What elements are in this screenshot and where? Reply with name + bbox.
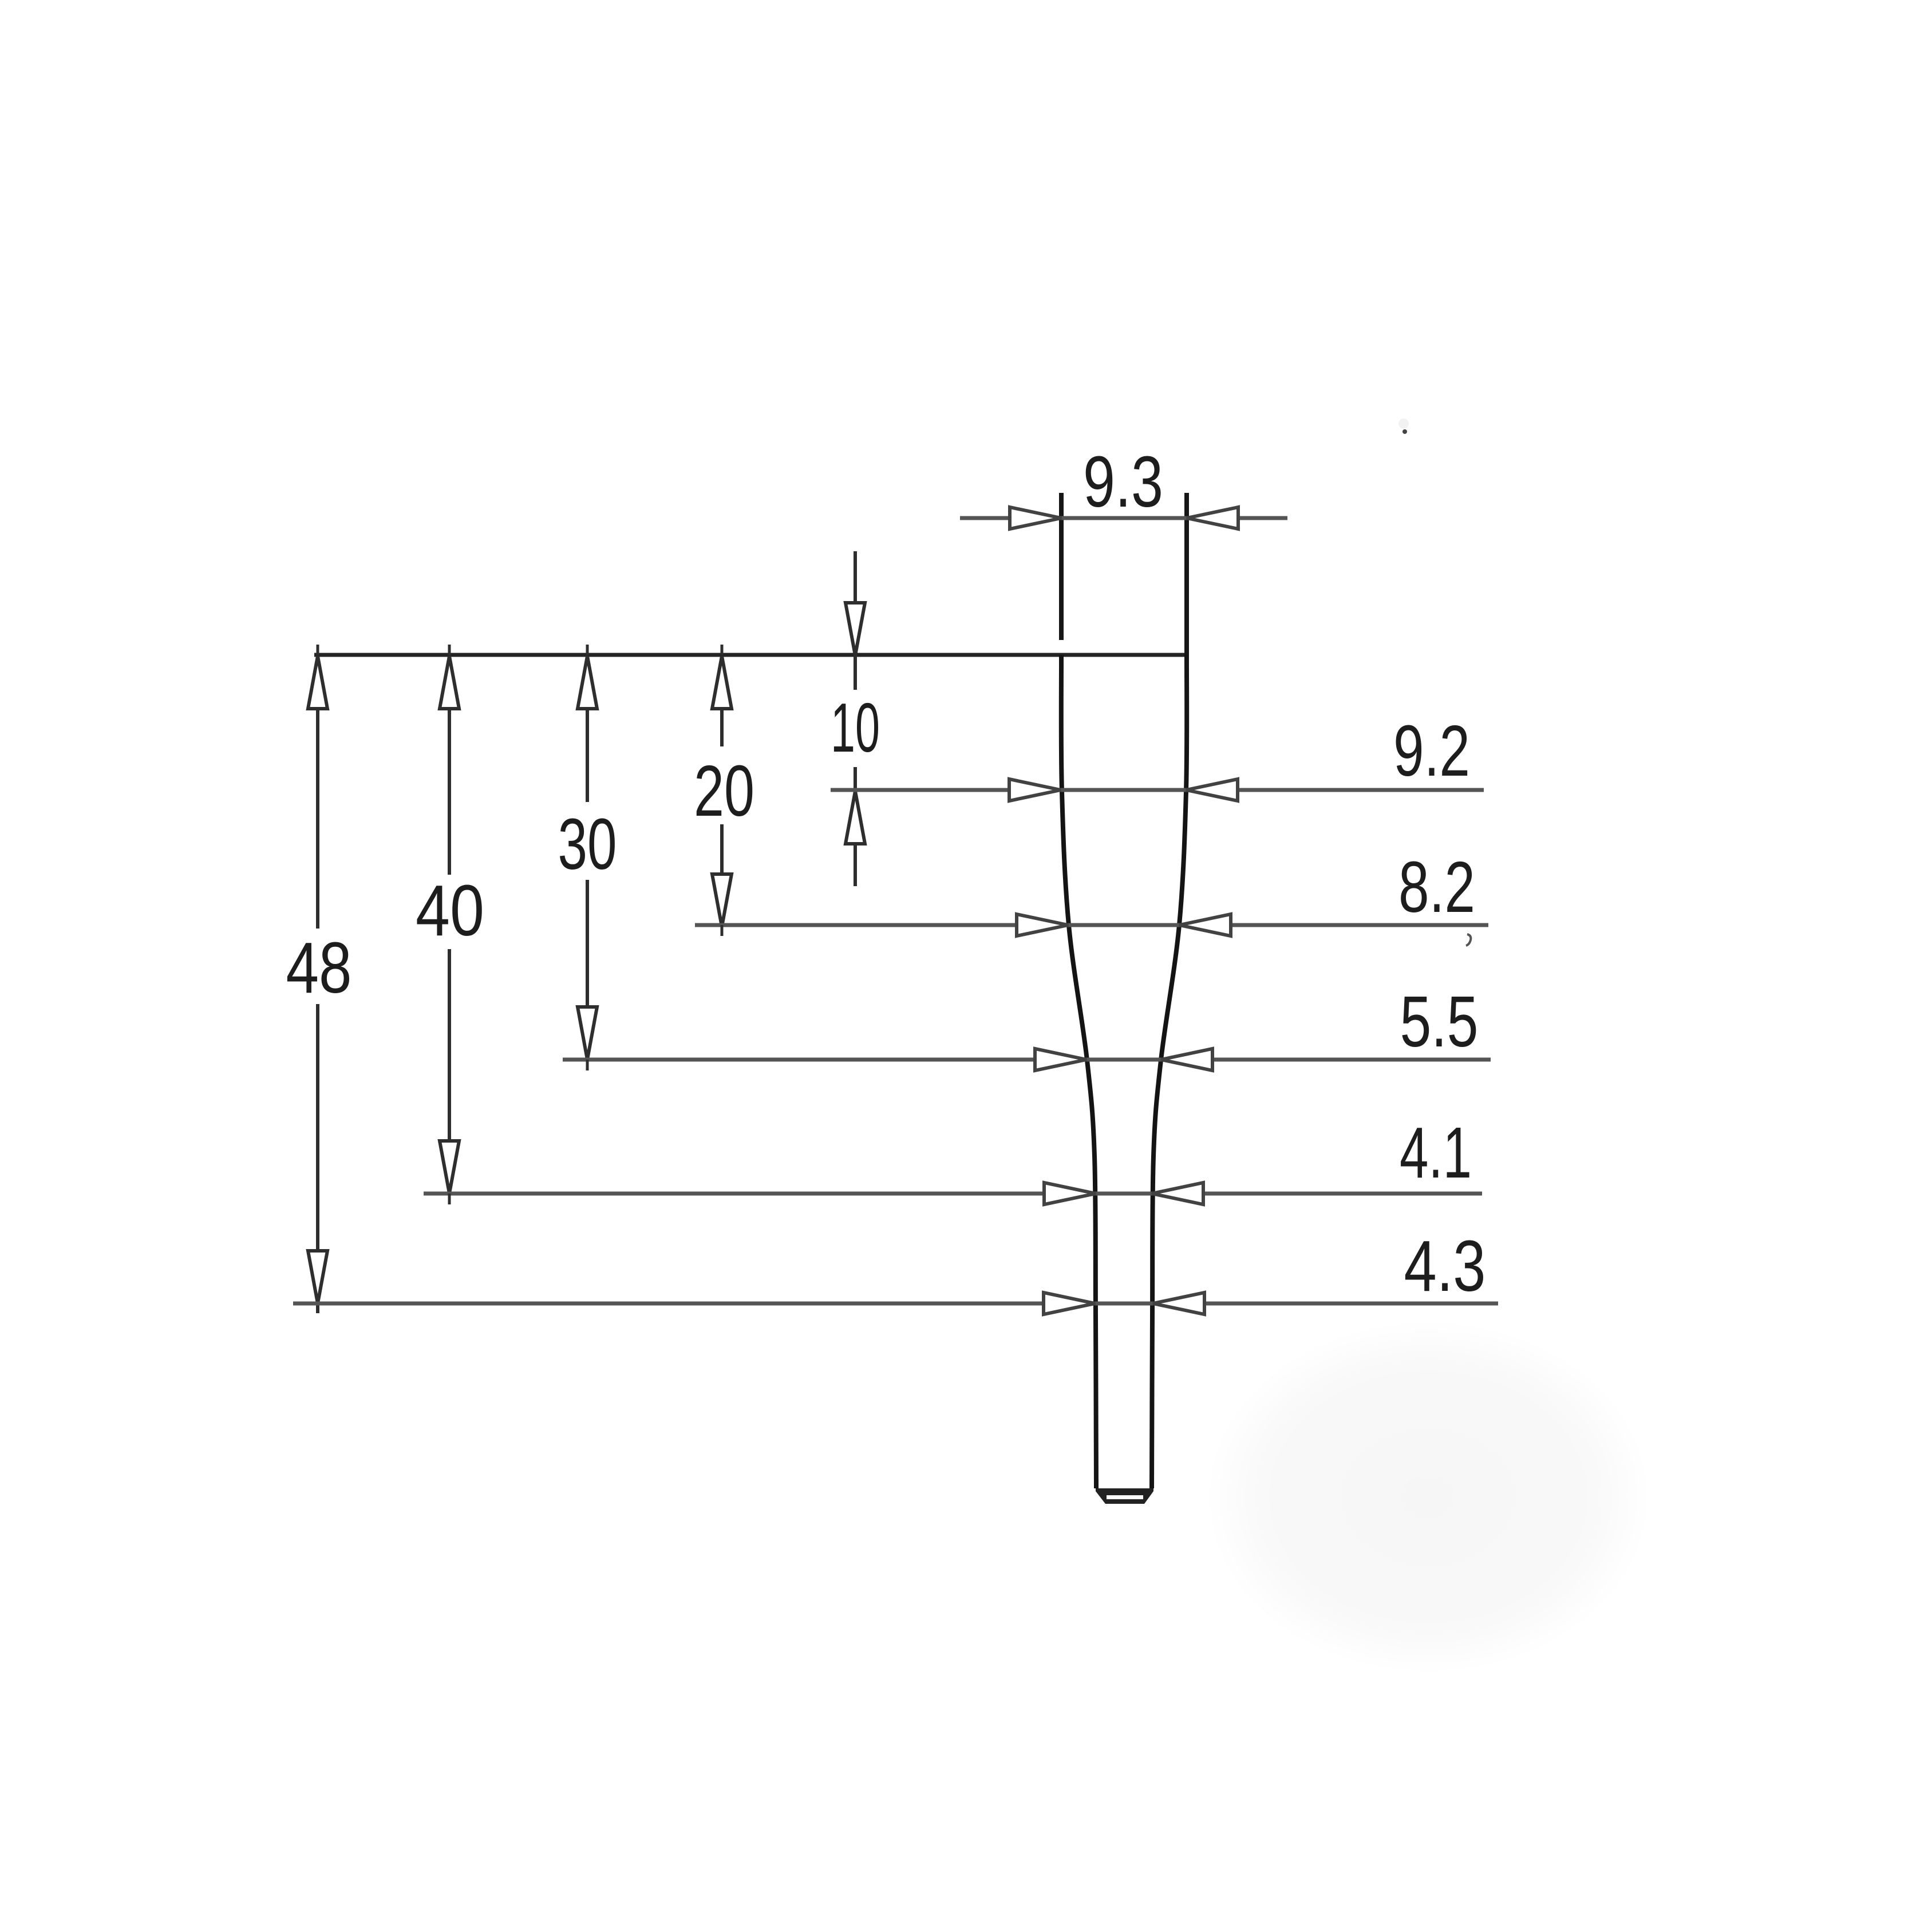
label 9.2 <box>1393 710 1470 791</box>
reed bottom cap <box>1096 1488 1153 1504</box>
scan speck top right <box>1398 418 1409 434</box>
label 5.5 <box>1400 981 1479 1062</box>
dimension 9.3 line <box>960 507 1287 529</box>
label 40 <box>416 870 484 951</box>
dimension 30 vertical <box>578 656 597 1060</box>
label 4.3 <box>1404 1226 1486 1306</box>
svg-text:4.3: 4.3 <box>1404 1226 1486 1306</box>
svg-text:4.1: 4.1 <box>1400 1112 1472 1193</box>
9.3 extension line right <box>1184 493 1189 655</box>
svg-text:20: 20 <box>694 750 754 831</box>
label 10 <box>831 689 880 767</box>
dimension 8.2 width line <box>695 914 1488 936</box>
dimension 10 upper part <box>846 551 865 690</box>
svg-text:8.2: 8.2 <box>1398 847 1475 927</box>
scan speck under 8.2 <box>1466 934 1471 946</box>
label 48 <box>286 927 352 1008</box>
label 4.1 <box>1400 1112 1472 1193</box>
reed left edge <box>1061 655 1096 1488</box>
label 8.2 <box>1398 847 1475 927</box>
svg-text:40: 40 <box>416 870 484 951</box>
svg-text:10: 10 <box>831 689 880 767</box>
svg-text:9.3: 9.3 <box>1083 441 1163 522</box>
dimension 9.2 width line <box>831 779 1484 801</box>
top reference line (top edge of reed, extends left to 48 dim) <box>314 653 1187 657</box>
dimension 5.5 width line <box>563 1049 1491 1070</box>
dimension 40 vertical <box>440 656 459 1194</box>
dimension 4.3 width line <box>293 1293 1498 1314</box>
svg-text:48: 48 <box>286 927 352 1008</box>
svg-text:9.2: 9.2 <box>1393 710 1470 791</box>
reed right edge <box>1152 655 1187 1488</box>
label 9.3 <box>1083 441 1163 522</box>
overshoot ticks on vertical dimension lines <box>318 645 722 1204</box>
label 30 <box>558 804 617 884</box>
dimension 20 vertical <box>712 656 732 927</box>
scan shadow bottom right <box>1205 1319 1652 1674</box>
svg-text:5.5: 5.5 <box>1400 981 1479 1062</box>
label 20 <box>694 750 754 831</box>
dimension 10 lower part <box>846 767 865 886</box>
dimension 4.1 width line <box>424 1183 1482 1204</box>
9.3 extension line left <box>1059 493 1064 640</box>
svg-text:30: 30 <box>558 804 617 884</box>
dimension 48 vertical <box>308 656 327 1313</box>
